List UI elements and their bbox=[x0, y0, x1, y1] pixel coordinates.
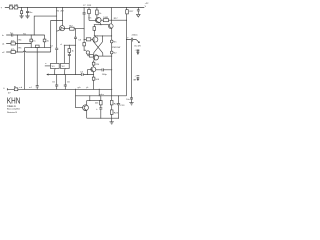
resistor R3 bbox=[11, 51, 15, 54]
svg-text:a1: a1 bbox=[2, 44, 5, 46]
svg-text:C7: C7 bbox=[83, 5, 87, 7]
wire output bus bbox=[111, 28, 113, 96]
resistor R19 bbox=[92, 77, 95, 80]
svg-text:a2: a2 bbox=[2, 52, 5, 54]
svg-text:+22: +22 bbox=[145, 3, 149, 5]
ground bbox=[137, 14, 141, 17]
svg-text:100p: 100p bbox=[102, 74, 108, 76]
svg-text:Class A: Class A bbox=[7, 104, 16, 108]
resistor R14 bbox=[96, 8, 98, 18]
wire X crossing bbox=[94, 41, 103, 57]
wire into Tr1 box bbox=[45, 65, 51, 67]
test point TP1 bbox=[110, 40, 113, 43]
resistor R26 bbox=[89, 55, 93, 58]
svg-text:470R 5W: 470R 5W bbox=[112, 47, 121, 49]
svg-text:10u: 10u bbox=[126, 99, 130, 101]
resistor R23 bbox=[111, 105, 113, 110]
svg-text:R6: R6 bbox=[56, 11, 60, 13]
test point TP2 bbox=[110, 51, 113, 54]
resistor R24 bbox=[84, 38, 93, 40]
svg-text:c-d: c-d bbox=[19, 87, 23, 89]
svg-text:Tr5: Tr5 bbox=[88, 16, 92, 19]
resistor R2 bbox=[11, 42, 15, 45]
svg-text:Bass amplifier: Bass amplifier bbox=[7, 107, 20, 110]
svg-text:10R: 10R bbox=[14, 5, 18, 7]
wire out arrow bbox=[136, 40, 139, 43]
transistor Q1 bbox=[60, 26, 65, 31]
resistor R15 bbox=[93, 25, 95, 36]
node J2 bbox=[27, 7, 28, 8]
resistor R7 bbox=[44, 35, 46, 48]
capacitor C2 bbox=[55, 48, 58, 49]
resistor R25 bbox=[83, 43, 86, 46]
wire bias base bbox=[76, 96, 83, 108]
ground bbox=[25, 16, 29, 18]
svg-text:+: + bbox=[135, 49, 137, 51]
ground bbox=[19, 16, 23, 18]
svg-text:Tr1: Tr1 bbox=[51, 65, 55, 68]
wire drop left bbox=[24, 48, 26, 90]
capacitor C14 bbox=[130, 42, 133, 103]
svg-text:a-b-c: a-b-c bbox=[99, 94, 104, 96]
svg-text:j-k: j-k bbox=[85, 87, 89, 89]
svg-text:8R: 8R bbox=[134, 79, 137, 81]
svg-text:R5: R5 bbox=[19, 48, 23, 50]
wire pot bottom bbox=[25, 47, 51, 49]
capacitor C12 bbox=[99, 108, 102, 118]
wire main bus bbox=[56, 8, 58, 64]
svg-text:+: + bbox=[96, 109, 98, 111]
wire left bus bbox=[16, 35, 18, 52]
svg-text:C6: C6 bbox=[67, 82, 71, 84]
svg-text:1k: 1k bbox=[99, 13, 102, 15]
wire Q5 emitter node bbox=[101, 24, 102, 25]
svg-text:R13: R13 bbox=[87, 5, 92, 7]
capacitor C9 out bbox=[126, 39, 127, 40]
node J6 bbox=[17, 43, 18, 44]
wire D collector bbox=[98, 55, 112, 57]
svg-text:10R: 10R bbox=[9, 5, 13, 7]
svg-text:C13: C13 bbox=[120, 105, 125, 107]
svg-text:1k: 1k bbox=[47, 41, 50, 43]
svg-text:e: e bbox=[45, 63, 47, 65]
svg-text:C3: C3 bbox=[78, 39, 82, 41]
svg-text:1k: 1k bbox=[72, 50, 75, 52]
svg-text:R4: R4 bbox=[19, 39, 23, 41]
svg-text:In: In bbox=[2, 35, 5, 37]
resistor R6b bbox=[30, 35, 32, 48]
wire bias rung bbox=[64, 44, 75, 46]
transistor Q3 box bbox=[51, 63, 60, 68]
transistor Q10 bbox=[84, 49, 86, 51]
capacitor C3 bbox=[74, 29, 77, 75]
svg-text:+: + bbox=[135, 76, 137, 78]
capacitor C15 bbox=[96, 68, 112, 71]
capacitor C16 bbox=[68, 54, 71, 63]
node J7 bbox=[17, 52, 18, 53]
svg-text:Revision B: Revision B bbox=[7, 112, 18, 114]
node J5 bbox=[34, 35, 35, 36]
svg-text:e-f: e-f bbox=[29, 87, 32, 89]
resistor R12 bbox=[68, 45, 70, 54]
wire bias tap bbox=[51, 21, 63, 53]
resistor R21 bbox=[100, 96, 102, 108]
capacitor C5 bbox=[55, 75, 58, 90]
svg-text:1k: 1k bbox=[33, 41, 36, 43]
svg-text:R23: R23 bbox=[114, 113, 119, 115]
node J4 bbox=[17, 35, 18, 36]
wire hop bbox=[23, 51, 25, 52]
resistor R18 bbox=[93, 61, 95, 67]
resistor R10 bbox=[14, 6, 18, 9]
ground bbox=[110, 122, 114, 124]
svg-text:220: 220 bbox=[96, 64, 100, 66]
transistor Q4 box bbox=[61, 63, 70, 68]
svg-text:100: 100 bbox=[95, 79, 99, 81]
potentiometer RV1 bbox=[36, 45, 40, 48]
svg-text:C2: C2 bbox=[50, 46, 54, 48]
capacitor C6 bbox=[64, 75, 67, 90]
resistor R11 bbox=[21, 8, 23, 16]
capacitor C11 rail bbox=[137, 8, 140, 15]
capacitor C4 bbox=[81, 73, 83, 76]
wire fb bottom bbox=[87, 117, 119, 119]
wire center rail bbox=[47, 74, 94, 76]
wire rail step bbox=[76, 89, 127, 96]
svg-text:Out 4R: Out 4R bbox=[134, 44, 141, 47]
resistor R20 bbox=[14, 88, 17, 91]
svg-text:Tr2: Tr2 bbox=[114, 51, 118, 54]
svg-text:R17: R17 bbox=[114, 18, 119, 20]
svg-text:22k: 22k bbox=[95, 103, 99, 105]
resistor R8 bbox=[65, 28, 84, 30]
ground bbox=[129, 103, 133, 105]
capacitor C13 bbox=[117, 96, 120, 118]
svg-text:10n: 10n bbox=[29, 12, 33, 14]
wire input riser bbox=[34, 16, 57, 35]
transistor Q2 driver bbox=[93, 55, 98, 60]
svg-text:d: d bbox=[60, 44, 62, 46]
capacitor C7 bootstrap bbox=[83, 8, 86, 51]
resistor R22 bbox=[111, 96, 113, 101]
transistor Q6 bbox=[109, 24, 114, 29]
resistor R9 bbox=[9, 6, 12, 9]
svg-text:100R: 100R bbox=[103, 17, 108, 19]
transistor Q9 bbox=[93, 37, 98, 42]
svg-text:Tr1: Tr1 bbox=[114, 40, 118, 43]
wire top rail bbox=[5, 7, 145, 9]
resistor R16 bbox=[100, 19, 111, 21]
wire ground rail bbox=[7, 88, 111, 90]
transistor Q7 bbox=[91, 67, 96, 72]
capacitor C8 bbox=[26, 8, 29, 16]
svg-text:+: + bbox=[1, 8, 3, 10]
transistor Q8 bbox=[83, 105, 89, 111]
wire collector bus bbox=[94, 35, 111, 37]
svg-text:0V: 0V bbox=[8, 93, 11, 95]
node J1 bbox=[21, 7, 22, 8]
wire R17 drop bbox=[126, 14, 128, 96]
wire wiper drop bbox=[36, 48, 39, 90]
wire bias top bbox=[87, 100, 101, 102]
resistor R13 bbox=[88, 8, 90, 21]
svg-text:C5: C5 bbox=[52, 82, 56, 84]
svg-text:V: V bbox=[145, 6, 147, 8]
svg-text:Tr2: Tr2 bbox=[61, 65, 65, 68]
node J8 bbox=[50, 47, 51, 48]
transistor Q5 bbox=[96, 17, 102, 23]
capacitor C1 bbox=[12, 34, 13, 37]
svg-text:g-h: g-h bbox=[78, 87, 82, 89]
wire step2 bbox=[98, 89, 100, 96]
svg-text:R17: R17 bbox=[130, 11, 135, 13]
svg-text:0: 0 bbox=[3, 88, 5, 90]
svg-text:2200u: 2200u bbox=[132, 35, 139, 37]
wire from rail to R16 bbox=[110, 8, 112, 21]
resistor R17 from rail bbox=[126, 8, 128, 10]
